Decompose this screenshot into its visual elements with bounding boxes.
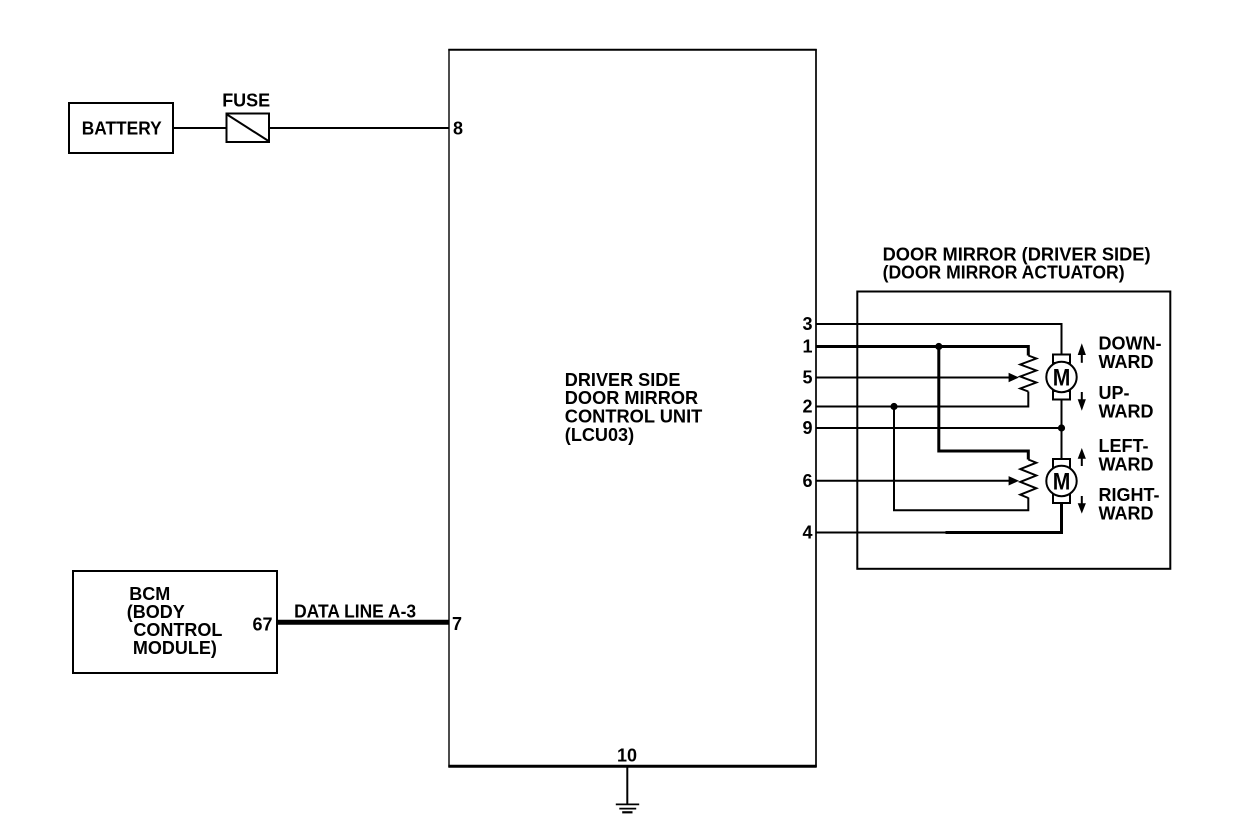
svg-text:WARD: WARD	[1099, 503, 1154, 523]
wire motor M1 to motor M2	[1061, 400, 1063, 460]
svg-text:RIGHT-: RIGHT-	[1099, 485, 1160, 505]
svg-text:M: M	[1053, 365, 1071, 392]
wire pin 5 to R1 wiper	[816, 377, 1010, 379]
wire pin 1 (thick) to resistor R1 top	[816, 347, 1028, 356]
wire pin 2 to resistor R1 bottom	[816, 392, 1028, 407]
svg-text:DOOR MIRROR (DRIVER SIDE): DOOR MIRROR (DRIVER SIDE)	[883, 244, 1151, 264]
svg-text:DOOR MIRROR: DOOR MIRROR	[565, 388, 698, 408]
resistor R2	[1020, 460, 1036, 499]
label DOWN-WARD	[1099, 334, 1162, 372]
svg-text:7: 7	[452, 614, 462, 634]
door mirror actuator box	[857, 292, 1170, 569]
svg-text:4: 4	[803, 523, 813, 543]
BCM box	[73, 571, 277, 673]
arrow upward	[1078, 392, 1086, 411]
svg-text:DOWN-: DOWN-	[1099, 334, 1162, 354]
wire data line A-3 (BCM 67 to control unit 7)	[277, 620, 449, 625]
svg-text:(BODY: (BODY	[127, 602, 185, 622]
control unit label	[565, 370, 703, 445]
arrow rightward	[1078, 496, 1086, 514]
wire pin 9 to motor common	[816, 427, 1062, 429]
svg-text:CONTROL: CONTROL	[133, 620, 222, 640]
svg-text:UP-: UP-	[1099, 383, 1130, 403]
svg-text:LEFT-: LEFT-	[1099, 436, 1149, 456]
svg-text:CONTROL UNIT: CONTROL UNIT	[565, 407, 703, 427]
wire pin 3 to motor M1 top	[816, 324, 1062, 355]
svg-text:5: 5	[803, 368, 813, 388]
junction pin 9 / motor common	[1058, 424, 1065, 431]
door mirror actuator label	[883, 244, 1151, 282]
wire pin 4 thick segment to motor M2 bottom	[946, 503, 1062, 533]
wire ground stem	[626, 767, 628, 804]
BCM label	[127, 584, 223, 658]
svg-text:9: 9	[803, 418, 813, 438]
junction on wire 1	[935, 343, 942, 350]
svg-text:6: 6	[803, 471, 813, 491]
svg-text:FUSE: FUSE	[222, 91, 270, 111]
junction on wire 2	[890, 403, 897, 410]
motor M1	[1046, 355, 1076, 400]
svg-text:(LCU03): (LCU03)	[565, 425, 634, 445]
wiper arrow R2	[1009, 476, 1019, 485]
svg-text:BCM: BCM	[129, 584, 170, 604]
wire junction 2 to resistor R2 bottom	[894, 407, 1028, 511]
battery box	[69, 103, 173, 153]
svg-text:WARD: WARD	[1099, 454, 1154, 474]
svg-text:3: 3	[803, 314, 813, 334]
svg-text:(DOOR MIRROR ACTUATOR): (DOOR MIRROR ACTUATOR)	[883, 262, 1125, 282]
svg-text:1: 1	[803, 337, 813, 357]
svg-text:WARD: WARD	[1099, 401, 1154, 421]
wiper arrow R1	[1009, 373, 1019, 382]
ground	[616, 804, 639, 812]
svg-text:MODULE): MODULE)	[133, 638, 217, 658]
wire pin 4 thin segment	[816, 532, 946, 534]
svg-text:WARD: WARD	[1099, 352, 1154, 372]
control unit LCU03 box	[448, 49, 816, 767]
label RIGHT-WARD	[1099, 485, 1160, 523]
svg-text:2: 2	[803, 397, 813, 417]
wire pin 6 to R2 wiper	[816, 480, 1010, 482]
wire junction 1 to resistor R2 top (thick)	[939, 347, 1029, 460]
svg-text:8: 8	[453, 119, 463, 139]
svg-text:DRIVER SIDE: DRIVER SIDE	[565, 370, 681, 390]
arrow downward	[1078, 343, 1086, 363]
wire fuse to control unit pin 8	[269, 127, 449, 129]
svg-text:10: 10	[617, 746, 637, 766]
svg-text:DATA LINE A-3: DATA LINE A-3	[294, 601, 416, 621]
wire battery to fuse	[173, 127, 226, 129]
svg-text:BATTERY: BATTERY	[82, 119, 162, 139]
label LEFT-WARD	[1099, 436, 1154, 474]
svg-text:M: M	[1053, 469, 1071, 496]
motor M2	[1046, 459, 1076, 503]
label UP-WARD	[1099, 383, 1154, 421]
arrow leftward	[1078, 448, 1086, 466]
resistor R1	[1020, 356, 1036, 392]
fuse	[227, 114, 270, 143]
svg-text:67: 67	[253, 615, 273, 635]
